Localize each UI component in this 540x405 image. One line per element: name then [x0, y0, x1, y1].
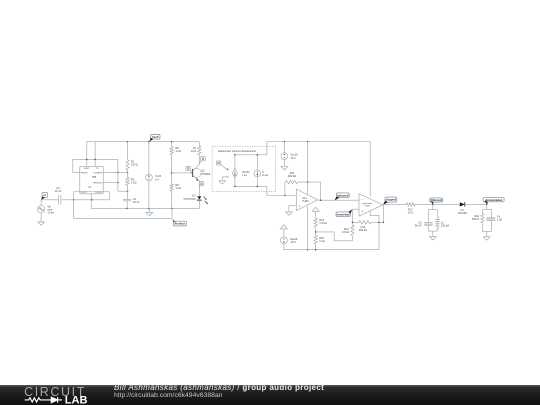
svg-text:100 Ω: 100 Ω: [131, 163, 138, 167]
svg-text:1 kΩ: 1 kΩ: [319, 239, 324, 243]
svg-text:3.3 kΩ: 3.3 kΩ: [319, 221, 327, 225]
svg-text:15 V: 15 V: [290, 156, 296, 160]
svg-text:1 kΩ: 1 kΩ: [175, 186, 180, 190]
svg-text:OA1: OA1: [302, 197, 307, 200]
svg-text:in: in: [44, 193, 47, 197]
svg-text:2N3904: 2N3904: [201, 172, 211, 176]
svg-text:LAB: LAB: [65, 395, 88, 405]
svg-text:dashed box mimics photodetecto: dashed box mimics photodetector: [218, 149, 256, 153]
svg-text:THRESHOLD: THRESHOLD: [93, 182, 103, 184]
svg-text:10 kΩ: 10 kΩ: [342, 230, 349, 234]
svg-text:−: −: [361, 198, 363, 202]
svg-text:1 µF: 1 µF: [497, 217, 503, 221]
svg-text:Vcc5: Vcc5: [152, 135, 159, 139]
svg-text:detected: detected: [337, 193, 348, 197]
svg-text:10 µF: 10 µF: [55, 189, 62, 193]
svg-text:390 kΩ: 390 kΩ: [288, 174, 296, 178]
svg-text:-15 V: -15 V: [290, 240, 296, 244]
svg-text:thresholded: thresholded: [337, 212, 350, 216]
svg-text:220 µH: 220 µH: [441, 224, 450, 228]
svg-text:RESET: RESET: [84, 168, 89, 170]
svg-text:1 kΩ: 1 kΩ: [131, 180, 136, 184]
svg-text:−: −: [299, 193, 301, 197]
svg-text:I1: I1: [262, 172, 265, 174]
svg-text:56 nF: 56 nF: [415, 224, 422, 228]
svg-text:1 µA: 1 µA: [242, 174, 247, 177]
svg-text:390 kΩ: 390 kΩ: [359, 228, 367, 232]
svg-text:1 kHz: 1 kHz: [47, 211, 54, 215]
svg-text:500 Ω: 500 Ω: [472, 217, 479, 221]
svg-text:VCC33: VCC33: [242, 172, 250, 174]
svg-text:1N4148: 1N4148: [458, 211, 468, 215]
svg-text:TL081: TL081: [364, 205, 371, 207]
svg-text:TSTS7100: TSTS7100: [183, 197, 196, 201]
svg-text:+: +: [361, 210, 363, 214]
svg-text:10 Ω: 10 Ω: [408, 210, 414, 214]
svg-text:CONTROL: CONTROL: [95, 192, 102, 194]
svg-text:+: +: [299, 205, 301, 209]
svg-text:555: 555: [92, 176, 97, 179]
svg-text:modout: modout: [175, 222, 185, 226]
svg-text:TRIGGER: TRIGGER: [81, 172, 89, 174]
svg-text:5 V: 5 V: [155, 177, 159, 181]
svg-text:OUTPUT: OUTPUT: [81, 192, 87, 194]
svg-text:1 kΩ: 1 kΩ: [175, 149, 180, 153]
svg-text:comparator: comparator: [362, 202, 373, 205]
svg-text:22 nF: 22 nF: [133, 200, 140, 204]
svg-text:filtered: filtered: [431, 198, 443, 202]
svg-text:10 µA: 10 µA: [262, 174, 269, 177]
svg-text:TL081: TL081: [302, 201, 309, 203]
svg-text:clipped: clipped: [386, 198, 396, 202]
svg-text:10 Ω: 10 Ω: [191, 149, 197, 153]
svg-text:demodulated: demodulated: [485, 198, 503, 202]
